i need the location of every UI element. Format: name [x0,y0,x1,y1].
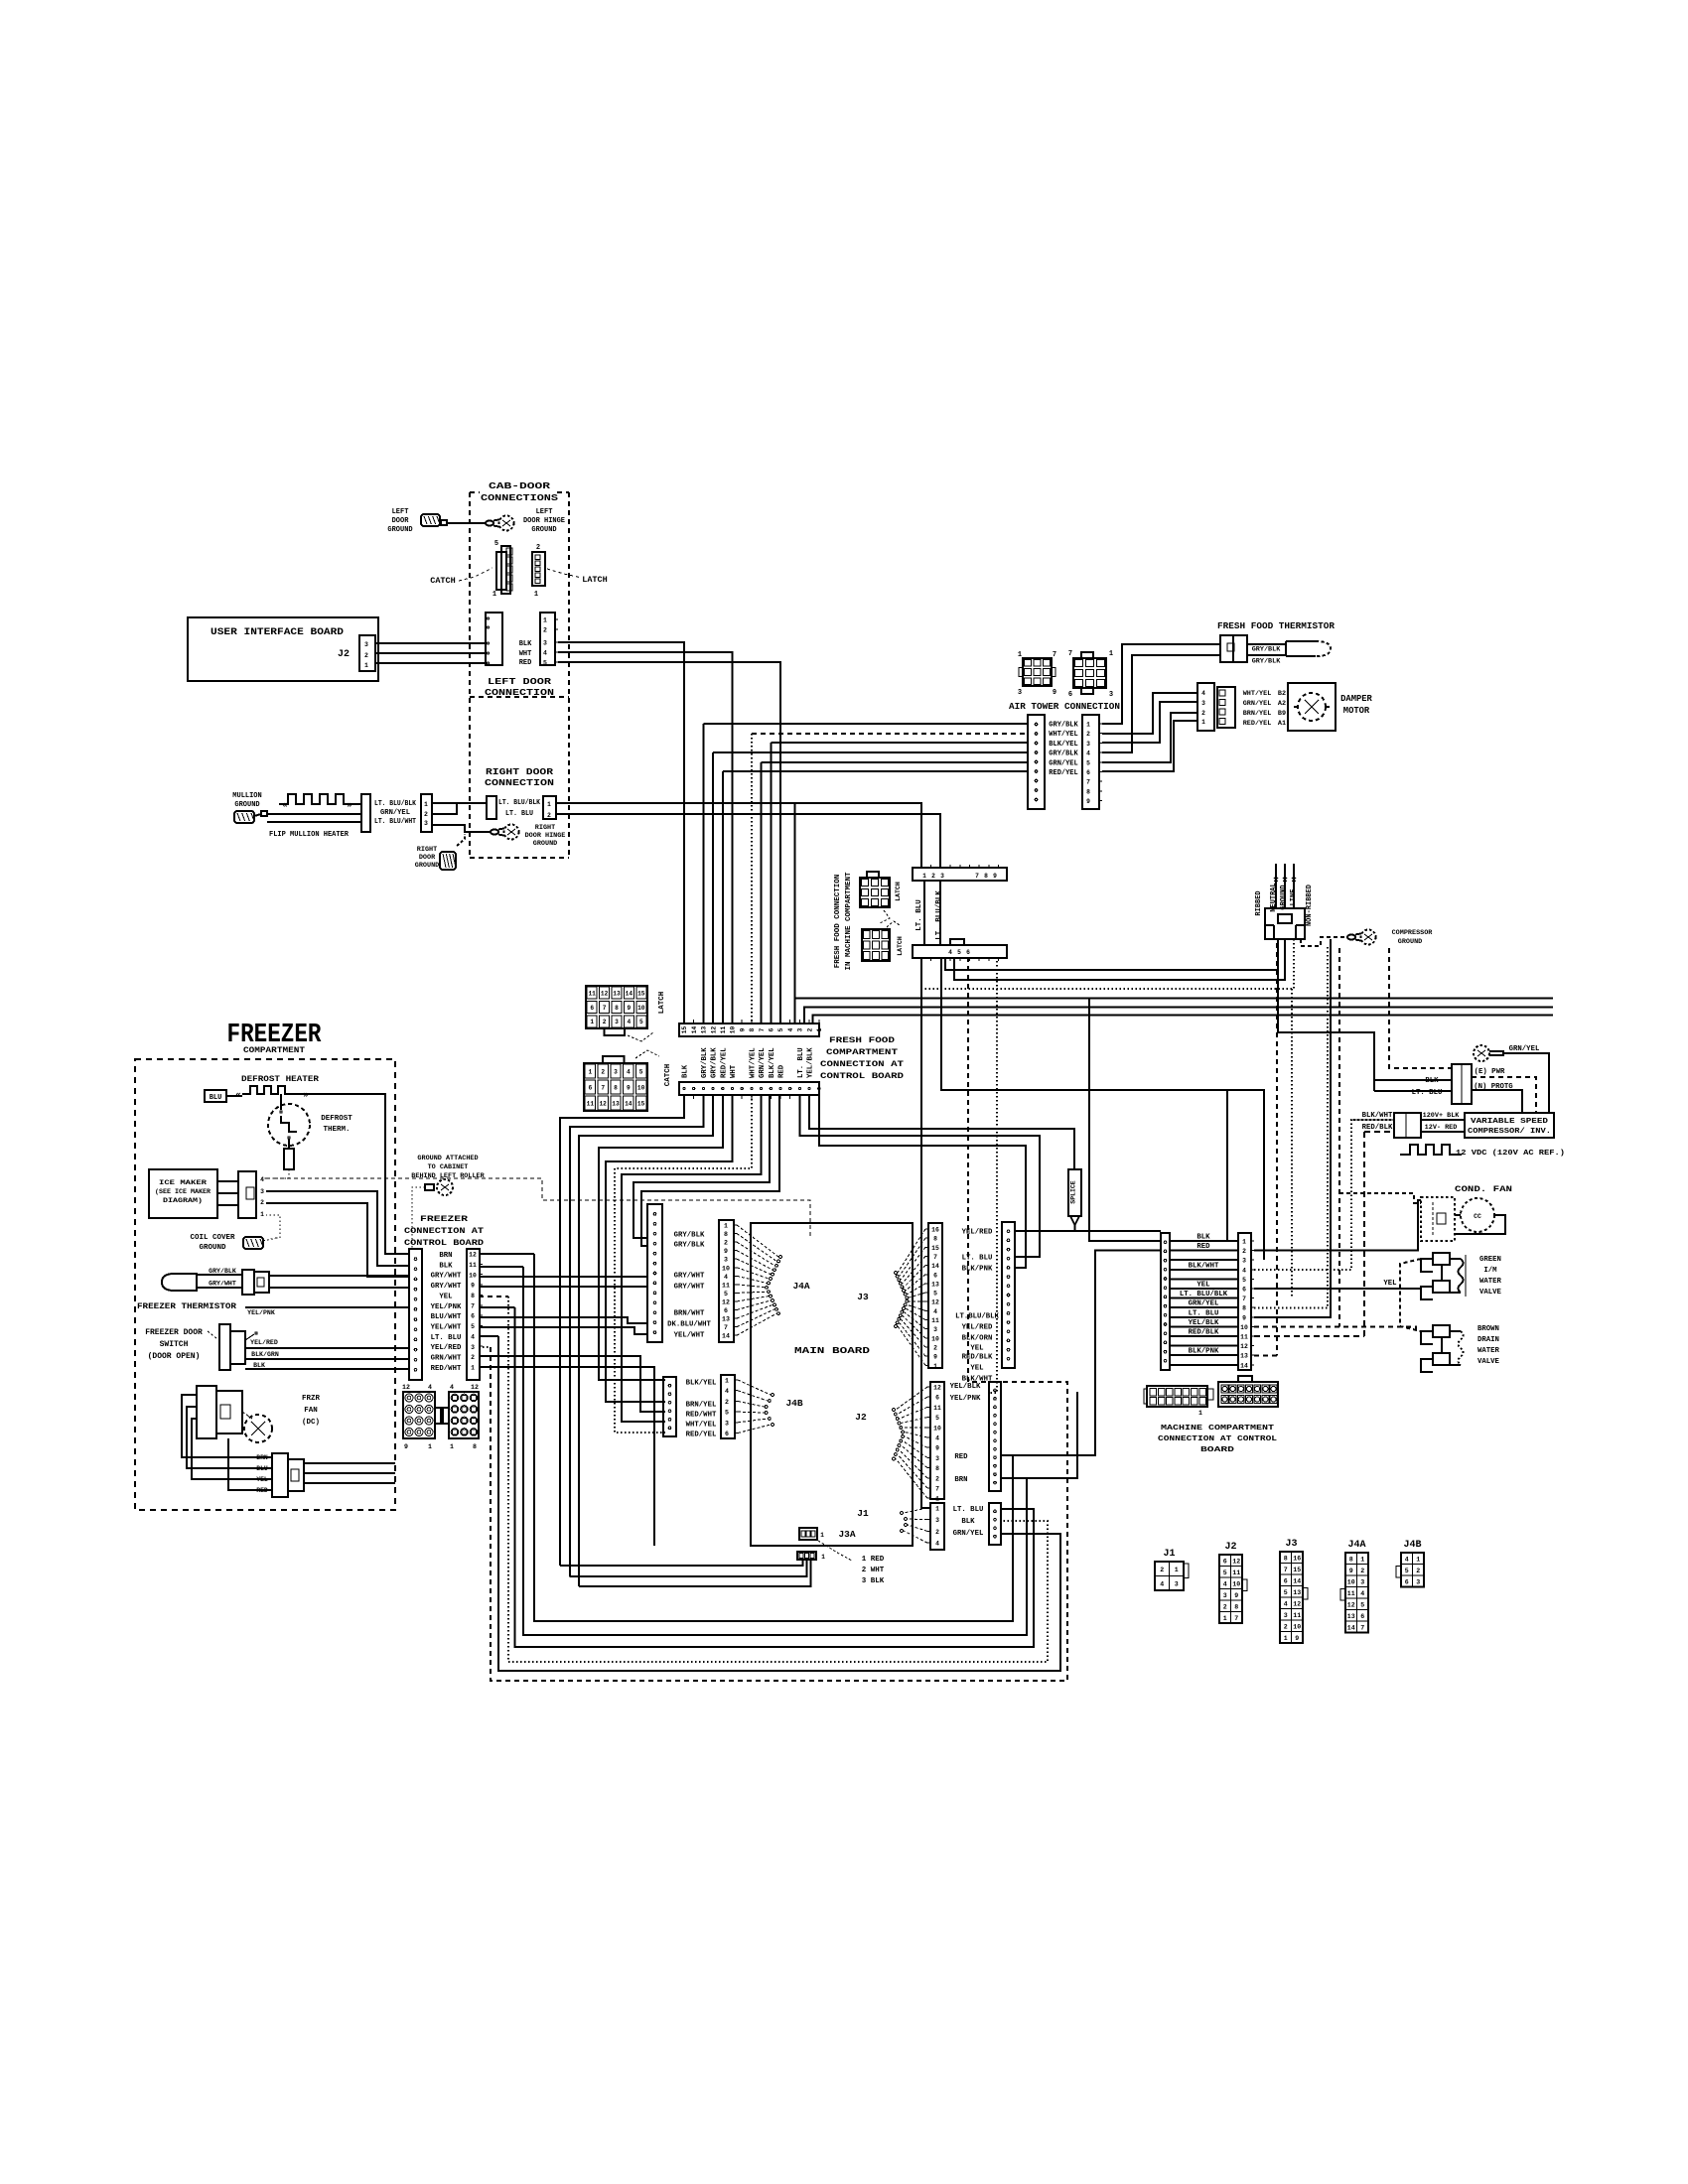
coil cover ground symbol [243,1237,263,1249]
svg-text:3: 3 [935,1455,939,1462]
svg-text:12: 12 [471,1384,479,1391]
svg-text:GRN/WHT: GRN/WHT [431,1355,462,1363]
latch grid connector (machine compartment) lower [862,929,890,961]
svg-text:BOARD: BOARD [1200,1446,1235,1454]
svg-text:11: 11 [933,1405,941,1412]
svg-text:12: 12 [931,1299,939,1306]
svg-text:1: 1 [724,1223,728,1230]
bus wire 2 YEL/BLK [804,1008,1553,1024]
wire heater pin1 to right door connector [432,802,487,804]
wire freezer YEL/RED dotted down [479,1346,491,1348]
svg-text:GROUND: GROUND [234,801,259,809]
svg-text:4: 4 [725,1388,729,1395]
ice maker box [149,1169,217,1218]
ground symbol left door [421,514,440,526]
svg-text:WHT/YEL: WHT/YEL [686,1422,717,1430]
catch connector (left door) [496,552,506,590]
svg-text:15: 15 [637,1100,645,1107]
svg-text:RED: RED [256,1487,268,1494]
svg-text:8: 8 [1284,1555,1288,1562]
freezer round connector A [403,1392,435,1438]
svg-text:FREEZER DOOR: FREEZER DOOR [145,1328,203,1337]
wire air tower pin5 to damper connector pin2 [1102,713,1197,762]
fresh food control strip lower [679,1082,819,1095]
svg-text:RED/WHT: RED/WHT [686,1412,717,1420]
svg-text:GRY/WHT: GRY/WHT [209,1281,236,1288]
svg-text:6: 6 [1068,691,1072,699]
wire right door pin2 jog [432,804,457,814]
svg-text:CONNECTION AT CONTROL: CONNECTION AT CONTROL [1158,1435,1278,1443]
svg-text:6: 6 [1405,1578,1409,1585]
wire freezer BLU/WHT pin6 to J4A [480,1317,647,1323]
svg-text:4: 4 [471,1333,475,1340]
svg-text:MAIN BOARD: MAIN BOARD [794,1345,870,1356]
svg-text:1: 1 [547,801,551,808]
svg-text:9: 9 [724,1248,728,1255]
user interface board box [188,617,378,681]
svg-text:3: 3 [1242,1258,1246,1265]
freezer connection left strip [409,1249,422,1380]
svg-text:4: 4 [935,1541,939,1548]
wire machine RED/BLK dashed [1254,1335,1364,1337]
svg-text:6: 6 [724,1307,728,1314]
svg-text:J4B: J4B [785,1398,802,1409]
wire freezer GRY/WHT pin10 to J4A [480,1276,647,1278]
svg-text:12: 12 [469,1252,477,1259]
svg-text:DAMPER: DAMPER [1340,694,1372,704]
cond fan box [1421,1197,1455,1241]
svg-text:9: 9 [993,873,997,880]
machine row feeder dotted [1291,989,1293,1298]
fresh food thermistor bulb [1286,641,1316,656]
svg-text:RED/YEL: RED/YEL [1049,769,1077,777]
wire power line2 [945,957,1278,970]
svg-text:RED/YEL: RED/YEL [720,1047,728,1078]
svg-text:10: 10 [730,1026,737,1034]
svg-text:1: 1 [424,801,428,808]
fresh food control strip upper [679,1024,819,1036]
svg-text:BLK: BLK [519,640,532,648]
svg-text:GROUND: GROUND [1398,938,1422,946]
wire (N) [1472,1090,1522,1113]
svg-text:1: 1 [1360,1556,1364,1563]
svg-text:RIGHT: RIGHT [417,846,437,854]
svg-text:YEL: YEL [439,1293,452,1300]
wire loop J3A RED [560,1560,803,1566]
svg-text:YEL/PNK: YEL/PNK [431,1303,462,1311]
svg-text:BLU/WHT: BLU/WHT [431,1313,462,1321]
svg-text:SWITCH: SWITCH [160,1340,189,1349]
svg-text:12 VDC (120V AC REF.): 12 VDC (120V AC REF.) [1456,1150,1565,1158]
svg-text:BRN/YEL: BRN/YEL [1243,710,1272,718]
green water valve solenoid [1421,1259,1433,1272]
air tower grid connector A [1023,658,1052,686]
svg-text:7: 7 [1234,1615,1238,1622]
svg-text:2: 2 [1416,1568,1420,1574]
svg-text:(SEE ICE MAKER: (SEE ICE MAKER [155,1188,211,1196]
damper motor box [1288,683,1336,731]
svg-text:2: 2 [1086,731,1090,738]
svg-text:CC: CC [1474,1213,1481,1220]
square wave symbol [1400,1145,1462,1155]
svg-text:BRN/WHT: BRN/WHT [674,1310,705,1318]
svg-text:16: 16 [931,1227,939,1234]
svg-text:CONNECTION: CONNECTION [485,688,554,698]
svg-text:14: 14 [626,991,633,998]
fresh food thermistor connector [1220,635,1247,662]
svg-text:13: 13 [931,1281,939,1288]
svg-text:WHT/YEL: WHT/YEL [749,1047,757,1078]
left door hinge ground lug [486,520,493,525]
svg-text:3: 3 [424,820,428,827]
svg-text:DEFROST HEATER: DEFROST HEATER [241,1075,319,1084]
cab-door connections dashed box [469,492,471,858]
svg-text:1 RED: 1 RED [862,1556,885,1564]
wire loop J3A BLK [579,1560,810,1586]
svg-text:FRZR: FRZR [302,1395,321,1403]
svg-text:LT. BLU/BLK: LT. BLU/BLK [374,800,416,808]
wire machine strip pin down to J1 LT.BLU [921,957,930,1508]
svg-text:15: 15 [1293,1567,1301,1573]
wire bundle B1 BLK [560,1095,684,1566]
svg-text:6: 6 [471,1313,475,1320]
wires cond fan [1455,1214,1461,1216]
svg-text:YEL: YEL [970,1345,983,1353]
frzr fan lower connector [272,1453,288,1497]
svg-text:1: 1 [933,1363,937,1370]
svg-text:GREEN: GREEN [1479,1256,1501,1264]
svg-text:GRN/YEL: GRN/YEL [759,1047,767,1078]
svg-text:RED: RED [954,1453,968,1461]
wire LT. BLU to connector [1374,1090,1452,1092]
svg-text:BLU: BLU [210,1094,222,1102]
svg-text:8: 8 [614,1084,618,1091]
wire air tower pin4 GRY/BLK [713,751,1028,753]
svg-text:BLU: BLU [256,1465,268,1472]
svg-text:8: 8 [1349,1556,1353,1563]
svg-text:IN MACHINE COMPARTMENT: IN MACHINE COMPARTMENT [845,872,853,971]
svg-text:1: 1 [471,1364,475,1371]
svg-text:»: » [347,800,352,810]
svg-text:LATCH: LATCH [658,992,666,1015]
svg-text:GRN/YEL: GRN/YEL [1243,700,1272,708]
svg-text:1: 1 [1018,651,1022,659]
svg-text:MOTOR: MOTOR [1343,706,1370,716]
svg-text:4: 4 [724,1274,728,1281]
svg-text:LT. BLU: LT. BLU [1189,1309,1219,1317]
wire machine strip dashed down [968,957,989,1382]
svg-text:1: 1 [428,1443,432,1450]
svg-text:LT. BLU/WHT: LT. BLU/WHT [374,818,416,826]
svg-text:RIGHT: RIGHT [535,824,555,832]
svg-text:GRY/WHT: GRY/WHT [674,1273,705,1281]
wire GRN/YEL to inverter [1503,1053,1549,1113]
svg-text:12: 12 [1240,1343,1248,1350]
air tower connection left strip [1028,715,1045,809]
svg-text:5: 5 [543,660,547,667]
svg-text:BLK/WHT: BLK/WHT [1189,1262,1219,1270]
left door connection left connector [486,613,502,665]
svg-text:THERM.: THERM. [323,1126,350,1134]
svg-text:7: 7 [603,1005,607,1012]
inverter ground lug [1474,1045,1489,1061]
svg-text:FLIP MULLION HEATER: FLIP MULLION HEATER [269,831,349,839]
damper 4-pin connector [1197,683,1214,731]
wire loop 5 [498,1336,1060,1671]
svg-text:GRN/YEL: GRN/YEL [953,1530,984,1538]
svg-text:9: 9 [933,1354,937,1361]
wire power line to BLK connector [1278,939,1452,1080]
wire freezer BLK down [479,1266,523,1268]
svg-text:11: 11 [1293,1612,1301,1619]
wire YEL/RED row to machine compartment [1014,1230,1161,1232]
svg-text:SPLICE: SPLICE [1070,1180,1077,1204]
svg-text:LT. BLU: LT. BLU [953,1506,984,1514]
wire left door pin4 WHT [558,652,733,1024]
wire dashed to compressor connector [1389,948,1452,1068]
svg-text:LT. BLU: LT. BLU [962,1255,993,1263]
svg-text:J1: J1 [1163,1549,1175,1560]
svg-text:7: 7 [1053,651,1056,659]
svg-text:4: 4 [1242,1267,1246,1274]
svg-text:4: 4 [628,1019,632,1025]
machine compartment wire rows [1170,1240,1238,1242]
mullion heater 3-pin connector [421,794,432,832]
svg-text:9: 9 [627,1084,631,1091]
machine compartment left strip [1161,1233,1170,1370]
svg-text:VARIABLE SPEED: VARIABLE SPEED [1471,1118,1548,1126]
svg-text:BLK/PNK: BLK/PNK [1189,1348,1219,1356]
svg-text:2: 2 [931,873,935,880]
svg-text:6: 6 [1242,1287,1246,1294]
svg-text:YEL/WHT: YEL/WHT [431,1323,462,1331]
svg-text:8: 8 [1086,788,1090,795]
svg-text:GRY/BLK: GRY/BLK [1049,722,1078,730]
svg-text:7: 7 [1242,1296,1246,1302]
svg-text:5: 5 [724,1291,728,1297]
frzr fan connector [197,1386,216,1438]
svg-text:1: 1 [820,1532,824,1539]
svg-text:BLK: BLK [253,1362,265,1369]
svg-text:5: 5 [1086,759,1090,766]
svg-text:6: 6 [589,1084,593,1091]
wire machine GRN/YEL dotted up [1254,946,1328,1307]
J4B fan-out [738,1380,771,1395]
svg-text:BLK/WHT: BLK/WHT [1362,1112,1393,1120]
svg-text:4: 4 [428,1384,432,1391]
svg-text:4: 4 [1284,1600,1288,1607]
wire loop J3A WHT [570,1560,807,1576]
svg-text:8: 8 [1242,1305,1246,1312]
wire bundle B8 to J4A GRY/BLK [633,1095,770,1238]
svg-text:YEL: YEL [970,1365,983,1373]
svg-text:DK.BLU/WHT: DK.BLU/WHT [667,1321,711,1329]
svg-text:3: 3 [1360,1578,1364,1585]
svg-text:GRY/BLK: GRY/BLK [674,1232,705,1240]
svg-text:RIBBED: RIBBED [1255,890,1263,915]
svg-text:7: 7 [935,1486,939,1493]
wire mullion heater bottom [267,821,361,823]
svg-text:RED/YEL: RED/YEL [1243,720,1272,728]
svg-text:12: 12 [933,1385,941,1392]
svg-text:12: 12 [722,1298,730,1305]
svg-text:RED: RED [778,1064,786,1078]
svg-text:6: 6 [769,1027,775,1031]
svg-text:10: 10 [469,1272,477,1279]
svg-text:BRN: BRN [439,1252,452,1260]
svg-text:7: 7 [759,1027,766,1031]
svg-text:5: 5 [935,1415,939,1422]
svg-text:5: 5 [471,1323,475,1330]
compressor ground lug [1347,934,1355,939]
svg-text:10: 10 [637,1084,645,1091]
svg-text:1: 1 [543,617,547,624]
wire right door LT. BLU to machine compartment strip pin1 [556,803,921,868]
svg-text:YEL: YEL [1196,1282,1209,1290]
svg-text:(E) PWR: (E) PWR [1475,1068,1505,1076]
svg-text:6: 6 [966,949,970,956]
wire bundle B4 to J4B BLK/YEL [599,1095,723,1380]
svg-text:COIL COVER: COIL COVER [190,1234,235,1242]
svg-text:8: 8 [749,1027,756,1031]
svg-text:DOOR HINGE: DOOR HINGE [525,832,566,840]
wires ice maker connector right [266,1191,409,1266]
svg-text:6: 6 [1360,1613,1364,1620]
svg-text:RED/BLK: RED/BLK [1362,1124,1393,1132]
wire air tower pin5 GRN/YEL [762,761,1028,763]
svg-text:12: 12 [1347,1601,1355,1608]
svg-text:6: 6 [590,1005,594,1012]
compressor plug connector [1452,1064,1472,1104]
svg-text:GRN/YEL: GRN/YEL [1509,1045,1540,1053]
wire J2 BRN up [1001,1392,1077,1478]
svg-text:1: 1 [364,662,368,669]
svg-text:BLK/PNK: BLK/PNK [962,1266,993,1274]
wire loop 4 dotted [508,1297,1048,1662]
svg-text:4: 4 [787,1027,794,1031]
svg-text:CONNECTION AT: CONNECTION AT [820,1059,904,1069]
wire bundle B3 [579,1095,713,1586]
svg-text:1: 1 [1175,1567,1179,1573]
svg-text:3: 3 [1201,700,1205,707]
svg-text:9: 9 [1349,1568,1353,1574]
svg-text:14: 14 [931,1263,939,1270]
freezer compartment dashed box [135,1059,395,1510]
J1 pin column [930,1503,944,1550]
svg-text:USER INTERFACE BOARD: USER INTERFACE BOARD [211,627,344,638]
green valve coil [1450,1258,1461,1260]
svg-text:GRY/WHT: GRY/WHT [431,1283,462,1291]
wire BLU to heater [226,1095,242,1097]
svg-text:13: 13 [1293,1589,1301,1596]
wires UI J2 to left door connection [375,642,486,644]
wire air tower pin3 BLK/YEL [771,742,1028,744]
svg-text:CONTROL BOARD: CONTROL BOARD [820,1071,904,1081]
latch grid connector (machine compartment) upper [860,878,890,907]
svg-text:3: 3 [260,1188,264,1195]
wire cabinet ground dotted [412,1187,417,1249]
right door hinge ground lug [491,829,498,834]
svg-text:B2: B2 [1278,690,1286,698]
svg-text:J2: J2 [855,1412,867,1423]
svg-text:2: 2 [260,1199,264,1206]
svg-text:4: 4 [1405,1556,1409,1563]
svg-text:12V- RED: 12V- RED [1425,1124,1458,1132]
svg-text:(DC): (DC) [302,1419,320,1427]
svg-text:9: 9 [628,1005,632,1012]
svg-text:J2: J2 [1224,1542,1236,1553]
svg-text:5: 5 [639,1019,643,1025]
wire heater pin3 to right door ground [432,825,491,832]
air tower connection right strip [1082,715,1099,809]
J1 right strip [989,1503,1001,1545]
svg-text:A1: A1 [1278,720,1286,728]
svg-text:J3: J3 [857,1292,869,1302]
wire (E) PWR dashed [1472,1077,1536,1113]
svg-text:YEL/PNK: YEL/PNK [247,1309,275,1316]
wire freezer GRN/WHT to J4B [479,1356,665,1412]
wire freezer GRY/WHT pin9 to J4A [480,1286,647,1288]
svg-text:3: 3 [935,1517,939,1524]
svg-text:10: 10 [1240,1324,1248,1331]
power plug [1265,908,1305,939]
wire right door LT. BLU/BLK to strip pin3 [556,814,940,868]
mating pins between fresh food machine strips [923,881,925,945]
flip mullion heater connector [361,794,370,832]
svg-text:5: 5 [725,1410,729,1417]
svg-text:1: 1 [922,873,926,880]
svg-text:3: 3 [543,640,547,647]
svg-text:CONNECTION: CONNECTION [485,778,554,788]
machine compartment pin column [1238,1233,1251,1370]
svg-text:4: 4 [948,949,952,956]
defrost heater element [242,1086,313,1094]
svg-text:WHT: WHT [519,650,532,658]
wire air tower pin1 to fresh food thermistor [1102,644,1220,724]
damper motor symbol [1298,693,1326,721]
svg-text:GROUND: GROUND [199,1244,226,1252]
svg-text:1: 1 [1086,722,1090,729]
svg-text:11: 11 [587,1100,595,1107]
svg-text:3: 3 [1086,741,1090,748]
svg-text:3: 3 [615,1019,619,1025]
svg-text:3 BLK: 3 BLK [862,1577,885,1585]
svg-text:1: 1 [816,1027,823,1031]
wire freezer RED/WHT down right [479,1367,654,1546]
svg-text:«: « [282,800,287,810]
compressor ground dashed wire [1301,937,1347,946]
svg-text:3: 3 [1109,691,1113,699]
wire bundle B6 dotted to J4B RED/YEL [615,1095,752,1433]
svg-text:8: 8 [615,1005,619,1012]
svg-text:4: 4 [1086,751,1090,757]
J3A leader dotted [818,1541,852,1561]
svg-text:9: 9 [1086,798,1090,805]
svg-text:7: 7 [1360,1624,1364,1631]
wire switch BLK [245,1368,409,1370]
wire power ground dotted [921,939,1294,989]
svg-text:DRAIN: DRAIN [1477,1336,1499,1344]
J3A external connector [797,1552,816,1560]
svg-text:LATCH: LATCH [582,575,608,585]
svg-text:RED/WHT: RED/WHT [431,1365,462,1373]
svg-text:13: 13 [613,991,621,998]
J3 pin column [928,1223,942,1368]
svg-text:WATER: WATER [1479,1278,1502,1286]
svg-text:6: 6 [725,1431,729,1437]
svg-text:LT. BLU/BLK: LT. BLU/BLK [1180,1291,1228,1298]
svg-text:J4B: J4B [1403,1540,1421,1551]
